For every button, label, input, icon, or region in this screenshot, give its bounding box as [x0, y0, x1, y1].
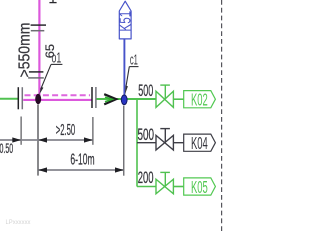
extension line below junction o1 [37, 105, 39, 176]
K51 flag [119, 1, 131, 39]
junction node o1 (dark ellipse) [35, 94, 41, 104]
svg-text:K51: K51 [118, 11, 135, 32]
extension line below right ticks [92, 117, 94, 145]
svg-text:500: 500 [138, 126, 155, 144]
top stub T mark [49, 0, 56, 3]
row 3 line valve to flag [173, 186, 183, 188]
flow arrow [104, 94, 116, 104]
svg-text:200: 200 [138, 169, 154, 187]
vertical magenta pipe [38, 0, 40, 97]
green main line middle [97, 98, 157, 100]
dimension line 6-10m [38, 169, 124, 171]
flange pair 2 on vertical pipe [29, 71, 44, 73]
blue pipe drop from K51 [123, 39, 125, 95]
svg-text:6-10m: 6-10m [70, 152, 94, 169]
junction node c1 (blue ellipse) [121, 95, 127, 105]
row 1 line valve to flag [173, 98, 183, 100]
valve V2 row 2 (gray) [156, 129, 173, 150]
dimension line 0.50 / >2.50 [0, 139, 93, 141]
green branch vertical [136, 99, 138, 187]
row 2 line valve to flag [173, 142, 183, 144]
row 3 line branch to valve [137, 186, 156, 188]
svg-text:>2.50: >2.50 [56, 122, 76, 139]
svg-text:c1: c1 [130, 52, 138, 69]
right flange tick pair [91, 87, 93, 108]
green main line left [0, 98, 18, 100]
extension line below junction c1 [123, 106, 125, 176]
svg-text:500: 500 [138, 82, 153, 100]
row 2 line branch to valve [137, 142, 156, 144]
dashed magenta tracing line [25, 94, 91, 96]
flag K02 [184, 91, 216, 108]
svg-text:0.50: 0.50 [0, 141, 13, 156]
svg-text:K05: K05 [191, 177, 208, 197]
valve V1 row 1 (green) [156, 85, 173, 107]
svg-text:>550mm: >550mm [16, 23, 33, 78]
extension line below left ticks [20, 117, 22, 145]
flag K05 [184, 178, 216, 195]
flag K04 [184, 134, 216, 151]
svg-text:K02: K02 [191, 90, 208, 110]
left flange tick pair [17, 87, 19, 109]
svg-text:LPxxxxxx: LPxxxxxx [6, 219, 32, 226]
valve V3 row 3 (green) [156, 172, 173, 193]
flange pair 1 on vertical pipe [31, 24, 46, 26]
svg-text:K04: K04 [191, 133, 208, 153]
boundary dash-dot line [221, 0, 223, 231]
solid magenta horizontal pipe [23, 99, 91, 101]
